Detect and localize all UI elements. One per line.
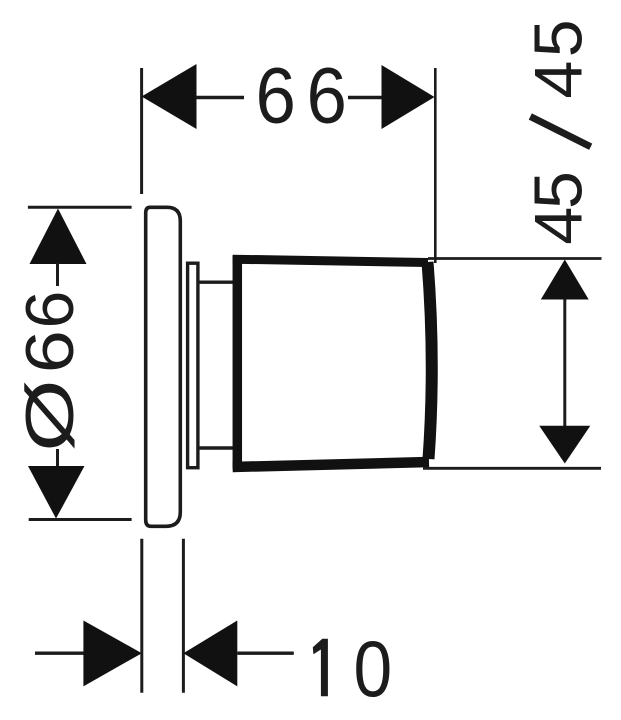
dim 10: label [313, 625, 392, 713]
knob left edge [233, 256, 243, 469]
dim 10: left extension line [140, 539, 143, 693]
svg-text:6: 6 [256, 52, 296, 140]
dim D66: label (rotated) [12, 291, 88, 452]
svg-text:4: 4 [521, 207, 597, 245]
dim D66: down arrow [28, 466, 85, 519]
dim D66: lower line segment [56, 449, 59, 468]
dim 10: right tail line [237, 652, 293, 655]
dim D66: top extension line [28, 206, 132, 209]
dim 66: left line segment [196, 96, 244, 99]
dim 10: left arrow [83, 621, 141, 687]
stem top line [198, 281, 236, 284]
knob bottom edge [233, 462, 429, 467]
dim 45/45: top extension line [428, 257, 602, 260]
dim 10: right arrow [183, 621, 237, 687]
knob top edge [233, 259, 428, 262]
knob right edge (convex face) [428, 262, 432, 459]
stem bottom line [198, 446, 236, 449]
dim D66: up arrow [30, 209, 87, 265]
dim 10: left tail line [35, 652, 84, 655]
dim D66: upper line segment [56, 263, 59, 286]
svg-text:6: 6 [12, 291, 88, 329]
svg-text:Ø: Ø [12, 379, 88, 452]
dim 45/45: dimension line [563, 299, 566, 427]
spacer ring [188, 263, 198, 468]
dim 45/45: up arrow [541, 260, 589, 300]
svg-text:5: 5 [521, 19, 597, 57]
dim 66: left extension line [140, 68, 143, 194]
svg-text:4: 4 [521, 61, 597, 99]
svg-text:6: 6 [307, 52, 347, 140]
svg-text:0: 0 [354, 625, 393, 713]
dim D66: bottom extension line [29, 518, 132, 521]
dim 66: label [256, 52, 347, 140]
dim 45/45: down arrow [539, 426, 590, 464]
dim 66: right extension line [434, 68, 437, 263]
dim 10: right extension line [182, 539, 185, 693]
dim 45/45: label (rotated) [521, 19, 597, 244]
escutcheon plate (side view) [146, 207, 181, 526]
dim 66: right line segment [348, 96, 382, 99]
dim 66: left arrow [142, 64, 197, 129]
dim 45/45: bottom extension line [423, 467, 601, 470]
svg-text:6: 6 [12, 330, 88, 373]
dim 45/45: slash in label [530, 117, 590, 147]
dim 66: right arrow [382, 65, 435, 129]
svg-text:5: 5 [521, 171, 597, 209]
